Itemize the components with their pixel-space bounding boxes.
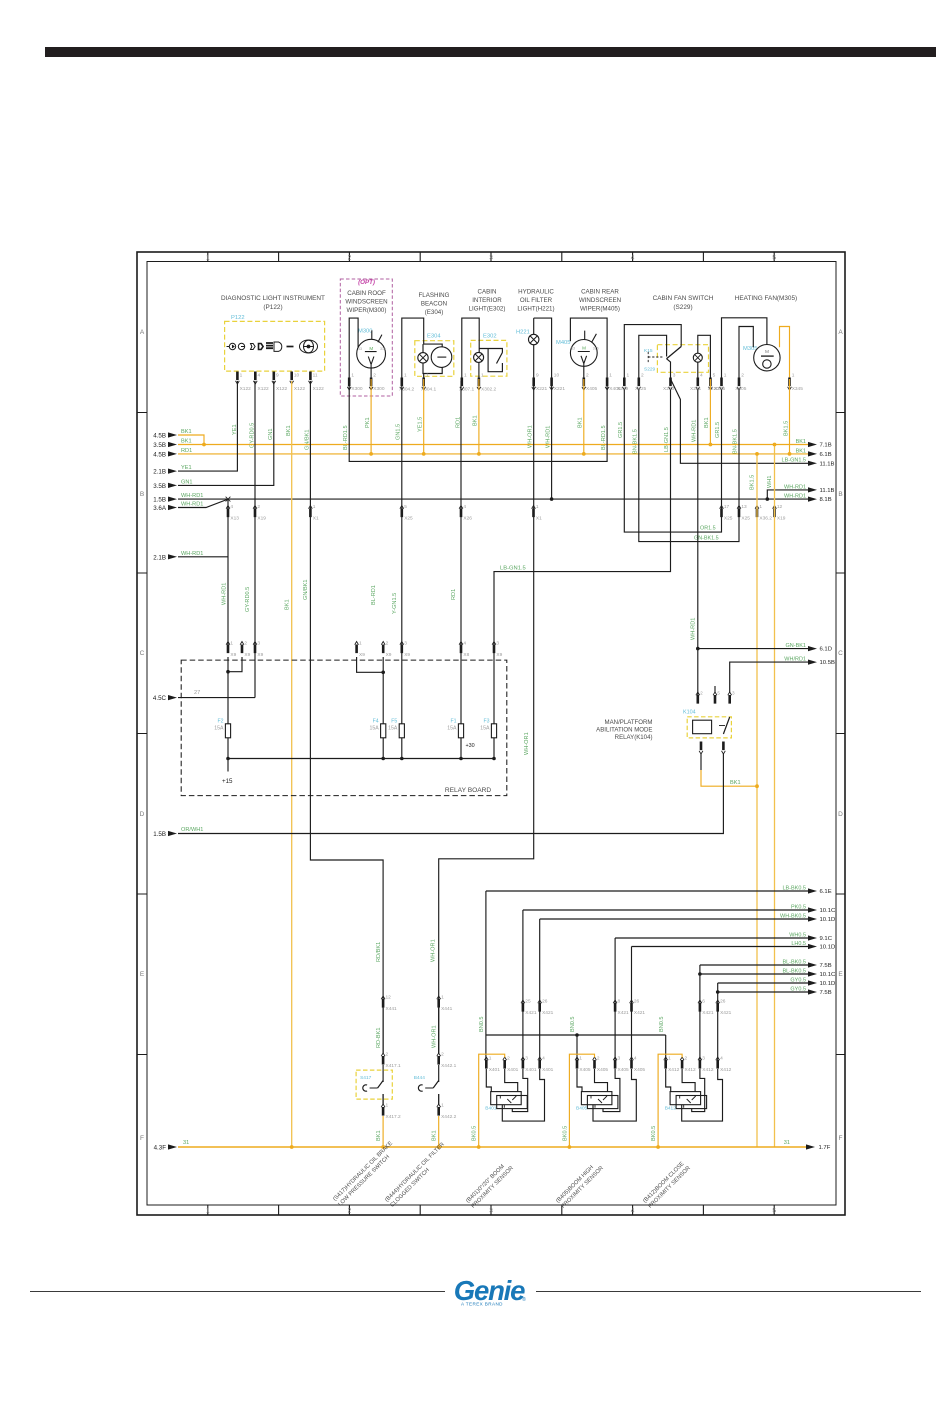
exit wire 7.5B GY0.5	[808, 989, 817, 994]
svg-text:3: 3	[702, 1056, 705, 1062]
svg-text:Y-GN1.5: Y-GN1.5	[392, 593, 398, 614]
svg-text:4: 4	[258, 373, 261, 379]
B405 orange feed	[569, 1054, 594, 1147]
B401 pin3 wire	[512, 1069, 527, 1112]
svg-text:BK1: BK1	[432, 1130, 438, 1141]
svg-text:X405: X405	[586, 386, 598, 392]
svg-text:1: 1	[627, 373, 630, 379]
svg-text:BK0.5: BK0.5	[472, 1126, 478, 1141]
svg-text:BK1: BK1	[730, 780, 741, 786]
svg-text:3: 3	[496, 641, 499, 647]
wire E304 pin X304.1 stub	[423, 374, 425, 380]
svg-text:GR1.5: GR1.5	[715, 422, 721, 438]
svg-text:B444: B444	[414, 1075, 426, 1081]
wire H221 lamp to pin	[533, 345, 535, 379]
svg-text:1: 1	[426, 373, 429, 379]
svg-text:+15: +15	[222, 778, 233, 785]
wire M300 pin1 to M405 pin1 BL-RD1.5	[349, 379, 607, 461]
svg-text:E: E	[838, 971, 843, 978]
svg-text:7.5B: 7.5B	[820, 963, 832, 969]
svg-text:X1: X1	[313, 516, 319, 522]
B405 body inner	[587, 1096, 618, 1109]
H221 connector pins X221	[532, 387, 554, 390]
svg-text:C: C	[838, 650, 843, 657]
X421 pins group3	[698, 1000, 720, 1003]
fuse F1 15A	[460, 649, 462, 724]
svg-text:4: 4	[634, 1056, 637, 1062]
svg-text:P122: P122	[231, 315, 245, 321]
B405 pin4 wire	[593, 1069, 636, 1121]
svg-text:15A: 15A	[447, 726, 457, 732]
svg-text:WH-RD1: WH-RD1	[691, 618, 697, 640]
svg-text:31b: 31b	[380, 347, 386, 351]
svg-text:BN0.5: BN0.5	[570, 1016, 576, 1032]
svg-text:3: 3	[525, 1056, 528, 1062]
svg-text:26: 26	[542, 999, 548, 1005]
svg-text:F: F	[140, 1135, 144, 1142]
svg-text:3: 3	[618, 1056, 621, 1062]
svg-text:2: 2	[441, 1052, 444, 1058]
svg-text:4: 4	[542, 1056, 545, 1062]
svg-text:4: 4	[631, 255, 635, 262]
svg-text:BK1: BK1	[181, 439, 192, 445]
wiper motor M405 symbol	[570, 340, 597, 367]
svg-text:LH0.5: LH0.5	[791, 941, 806, 947]
svg-text:F2: F2	[217, 719, 223, 725]
svg-text:1: 1	[441, 995, 444, 1001]
X421 pins group1	[521, 1000, 542, 1003]
svg-text:1.5B: 1.5B	[153, 831, 166, 838]
B401 pin4 wire	[502, 1069, 544, 1121]
B412 pin3 wire	[692, 1069, 705, 1112]
wire GY-RD0.5 P122 pin4 through X19 to relay	[254, 381, 256, 698]
svg-text:X9: X9	[257, 652, 263, 658]
exit wire 10.1D LH0.5	[632, 946, 809, 948]
B405 body outer	[581, 1092, 612, 1105]
svg-text:2: 2	[685, 1056, 688, 1062]
P122 connector pins X122	[236, 381, 313, 384]
svg-text:LB-GN1.5: LB-GN1.5	[782, 458, 806, 464]
junction	[369, 452, 373, 456]
svg-text:7.5B: 7.5B	[820, 990, 832, 996]
wire E304 lamp bottom link	[423, 363, 442, 374]
svg-text:LB-BK0.5: LB-BK0.5	[782, 885, 806, 891]
svg-text:53: 53	[358, 347, 362, 351]
wire 10.1D vertical to B442 pin4	[717, 983, 719, 1067]
svg-text:CABIN REAR: CABIN REAR	[581, 289, 619, 296]
svg-text:INTERIOR: INTERIOR	[472, 297, 502, 304]
svg-text:BN-BK1.5: BN-BK1.5	[633, 429, 639, 454]
svg-text:7.1B: 7.1B	[820, 443, 832, 449]
wire M305 X345 orange drop	[789, 379, 791, 454]
svg-text:4: 4	[720, 1056, 723, 1062]
svg-text:X25: X25	[724, 516, 733, 522]
svg-text:X122: X122	[258, 386, 270, 392]
svg-text:1: 1	[313, 504, 316, 510]
wire E302 pin X302.2 orange drop	[478, 379, 480, 454]
fan feed loop right orange	[780, 327, 790, 378]
svg-text:BK1: BK1	[704, 417, 710, 428]
svg-text:D: D	[140, 811, 145, 818]
wire B441 pin1 drop	[576, 1035, 578, 1067]
svg-text:WH-RD1: WH-RD1	[181, 551, 203, 557]
wire 6.1E vertical to sensor common	[485, 891, 487, 1067]
svg-text:LB-GN1.5: LB-GN1.5	[500, 565, 526, 571]
wire E304 pin X304.1 orange drop	[423, 379, 425, 454]
B412 pin4 wire	[682, 1069, 723, 1121]
svg-text:53: 53	[571, 347, 575, 351]
svg-text:1: 1	[759, 504, 762, 510]
B401 orange feed	[479, 1054, 505, 1147]
svg-text:X421: X421	[720, 1010, 732, 1016]
svg-text:BK0.5: BK0.5	[651, 1126, 657, 1141]
exit wire 10.1D WH-BK0.5	[540, 918, 808, 920]
E302 door switch	[479, 349, 502, 353]
svg-text:2: 2	[348, 1208, 352, 1215]
beacon lamp symbol	[418, 353, 428, 363]
svg-text:1: 1	[206, 1208, 210, 1215]
relay K104 dashed box	[687, 717, 731, 738]
svg-text:B: B	[140, 491, 144, 498]
relay board +15 stub	[227, 759, 229, 772]
svg-text:2: 2	[586, 373, 589, 379]
svg-text:15A: 15A	[214, 726, 224, 732]
svg-text:BEACON: BEACON	[421, 301, 447, 308]
junction	[550, 497, 554, 501]
svg-text:1: 1	[536, 504, 539, 510]
svg-text:2: 2	[741, 373, 744, 379]
svg-text:2: 2	[507, 1056, 510, 1062]
svg-text:X9: X9	[230, 652, 236, 658]
svg-text:BK1: BK1	[181, 429, 192, 435]
wire WH-RD1 branch to 11.1B	[767, 490, 808, 499]
fuse F3 15A	[493, 649, 495, 724]
svg-text:YE1: YE1	[181, 465, 192, 471]
svg-text:2: 2	[257, 504, 260, 510]
svg-text:E: E	[140, 971, 145, 978]
svg-text:WH-OR1: WH-OR1	[431, 939, 437, 962]
svg-text:RELAY BOARD: RELAY BOARD	[445, 787, 492, 794]
svg-text:BK0.5: BK0.5	[562, 1126, 568, 1141]
svg-text:B405: B405	[576, 1105, 588, 1111]
K104 coil	[693, 720, 712, 734]
heating fan M305 symbol	[754, 345, 780, 371]
svg-text:CABIN FAN SWITCH: CABIN FAN SWITCH	[653, 295, 714, 302]
fuse F5 15A	[401, 649, 403, 724]
B412 body inner	[676, 1096, 707, 1109]
B412 orange feed	[658, 1054, 682, 1147]
fuse F4 15A	[382, 657, 384, 724]
svg-text:(E304): (E304)	[425, 309, 444, 316]
exit wire 9.1C WH0.5	[615, 937, 808, 939]
M300 connector pins X300	[347, 387, 373, 390]
svg-text:6.1B: 6.1B	[820, 452, 832, 458]
wire S229 X229 loop via X25.17	[624, 390, 721, 532]
svg-text:11.1B: 11.1B	[820, 488, 835, 494]
svg-text:X412: X412	[668, 1067, 680, 1073]
svg-text:DIAGNOSTIC LIGHT INSTRUMENT: DIAGNOSTIC LIGHT INSTRUMENT	[221, 295, 325, 302]
svg-text:4.5B: 4.5B	[153, 451, 166, 458]
svg-text:X19: X19	[257, 516, 266, 522]
svg-text:2: 2	[641, 373, 644, 379]
wire LB-GN1.5 X223 to relay board	[494, 390, 671, 649]
svg-text:X9: X9	[496, 652, 502, 658]
svg-text:OIL FILTER: OIL FILTER	[520, 297, 553, 304]
header black bar	[45, 47, 936, 57]
P122 indicator icons	[227, 340, 318, 353]
svg-text:X19: X19	[777, 516, 786, 522]
svg-text:A: A	[140, 329, 145, 336]
wire M300 pin2 orange drop	[370, 379, 372, 454]
svg-text:RD/BK1: RD/BK1	[376, 942, 382, 962]
K104 bottom pins	[699, 751, 725, 754]
svg-text:X221: X221	[536, 386, 548, 392]
fuse F2 15A	[227, 657, 229, 724]
svg-text:GY-RD0.5: GY-RD0.5	[245, 587, 251, 612]
svg-text:3: 3	[404, 641, 407, 647]
junction	[575, 1033, 579, 1037]
svg-text:X412: X412	[702, 1067, 714, 1073]
orange pins	[755, 506, 776, 509]
svg-text:31: 31	[784, 1140, 790, 1146]
svg-text:F: F	[839, 1135, 843, 1142]
svg-text:A: A	[838, 329, 843, 336]
M405 connector pins X405	[582, 387, 609, 390]
exit arrow 11.1B	[808, 487, 817, 492]
svg-text:PK0.5: PK0.5	[791, 904, 806, 910]
svg-text:X9: X9	[244, 652, 250, 658]
footer rule right	[536, 1291, 921, 1293]
svg-text:X221: X221	[690, 386, 702, 392]
svg-text:10.1D: 10.1D	[820, 917, 836, 923]
svg-text:CABIN ROOF: CABIN ROOF	[347, 290, 386, 297]
svg-text:X401: X401	[525, 1067, 537, 1073]
interior light E302 dashed box	[471, 340, 507, 376]
junction	[766, 497, 770, 501]
svg-text:31b: 31b	[593, 347, 599, 351]
svg-text:1: 1	[441, 1103, 444, 1109]
svg-text:BL-RD1: BL-RD1	[371, 585, 377, 605]
junction	[226, 670, 230, 674]
B412 pins X412	[664, 1057, 720, 1060]
svg-text:X9: X9	[359, 652, 365, 658]
wire S229 X220 orange drop	[709, 379, 711, 445]
X421 pins group2	[613, 1000, 633, 1003]
junction	[696, 647, 700, 651]
svg-text:F3: F3	[483, 719, 489, 725]
wire GY0.5 split to 7.5B	[718, 991, 808, 993]
svg-text:9: 9	[536, 373, 539, 379]
svg-text:RD1: RD1	[181, 448, 192, 454]
svg-text:B: B	[838, 491, 842, 498]
svg-text:WH0.5: WH0.5	[789, 932, 806, 938]
svg-text:MAN/PLATFORM: MAN/PLATFORM	[605, 719, 653, 726]
svg-text:WH1: WH1	[767, 476, 773, 488]
svg-text:8: 8	[618, 999, 621, 1005]
B401 pin1 wire	[486, 1069, 491, 1092]
svg-text:25: 25	[525, 999, 531, 1005]
svg-text:RELAY(K104): RELAY(K104)	[615, 734, 653, 741]
svg-text:X9: X9	[404, 652, 410, 658]
svg-text:1: 1	[240, 373, 243, 379]
svg-text:CABIN: CABIN	[478, 289, 497, 296]
junction	[788, 452, 792, 456]
svg-text:X412: X412	[720, 1067, 732, 1073]
svg-text:X401: X401	[489, 1067, 501, 1073]
svg-text:X441: X441	[441, 1006, 453, 1012]
svg-text:26: 26	[720, 999, 726, 1005]
fan switch S229 dashed box	[657, 345, 708, 373]
svg-text:X417.1: X417.1	[386, 1063, 402, 1069]
svg-text:BK1: BK1	[796, 439, 806, 445]
svg-text:BN0.5: BN0.5	[659, 1016, 665, 1032]
wire E304 lamp top stub	[422, 344, 424, 353]
exit wire 10.1D GY0.5	[718, 982, 808, 984]
svg-text:BL-RD1.5: BL-RD1.5	[601, 425, 607, 450]
svg-text:E304: E304	[427, 334, 441, 340]
footer rule left	[30, 1291, 445, 1293]
svg-text:BK1: BK1	[578, 417, 584, 428]
wiper M300 magenta dashed option box	[340, 279, 392, 396]
svg-text:X225: X225	[635, 386, 647, 392]
svg-text:X421: X421	[634, 1010, 646, 1016]
svg-text:1: 1	[489, 1056, 492, 1062]
junction	[755, 452, 759, 456]
svg-text:X122: X122	[276, 386, 288, 392]
instrument P122 dashed box	[225, 321, 325, 371]
exit arrow 7.1B	[808, 442, 817, 447]
svg-text:12: 12	[386, 995, 392, 1001]
svg-text:X442.2: X442.2	[441, 1114, 457, 1120]
svg-text:X223: X223	[663, 386, 675, 392]
B412 pin1 wire	[666, 1069, 671, 1092]
S417 lower pin	[381, 1104, 385, 1107]
svg-text:M405: M405	[556, 340, 571, 346]
svg-text:BL-BK0.5: BL-BK0.5	[782, 959, 806, 965]
svg-text:1: 1	[464, 373, 467, 379]
junction	[477, 452, 481, 456]
svg-text:OR/WH1: OR/WH1	[181, 827, 203, 833]
svg-text:15A: 15A	[480, 726, 490, 732]
outer border frame	[137, 252, 845, 1215]
svg-text:1: 1	[724, 373, 727, 379]
svg-text:X229: X229	[617, 386, 629, 392]
relay board link pin X9-1 to F4 line	[357, 657, 384, 672]
wire M300 pin1 loop	[349, 318, 358, 379]
svg-text:3.5B: 3.5B	[153, 442, 166, 449]
wire WH1 orange vertical	[774, 445, 776, 1148]
svg-text:27: 27	[194, 690, 200, 696]
svg-text:5: 5	[772, 255, 776, 262]
svg-text:X412: X412	[685, 1067, 697, 1073]
svg-text:M300: M300	[358, 329, 373, 335]
svg-text:12: 12	[777, 504, 783, 510]
beacon motor symbol	[431, 347, 452, 368]
svg-text:4.5B: 4.5B	[153, 433, 166, 440]
svg-text:GY0.5: GY0.5	[790, 977, 806, 983]
B444 pin X441	[437, 996, 441, 999]
svg-text:BK1: BK1	[376, 1130, 382, 1141]
wire P122 pin10 orange long vertical BK to ground bus	[291, 381, 293, 1147]
svg-text:BK1.5: BK1.5	[784, 421, 790, 436]
svg-text:X401: X401	[542, 1067, 554, 1073]
svg-text:D: D	[838, 811, 843, 818]
svg-text:GR1.5: GR1.5	[618, 422, 624, 438]
svg-text:X36.2: X36.2	[759, 516, 772, 522]
svg-text:1: 1	[668, 1056, 671, 1062]
wire E302 RD1 X26 vertical to relay X8	[460, 381, 462, 649]
svg-text:HYDRAULIC: HYDRAULIC	[518, 289, 554, 296]
svg-text:WH-RD1: WH-RD1	[784, 484, 806, 490]
svg-text:X305: X305	[714, 386, 726, 392]
B401 body outer	[491, 1092, 522, 1105]
E302 connector pins	[460, 387, 481, 390]
svg-text:BK1.5: BK1.5	[750, 475, 756, 490]
svg-text:11: 11	[313, 373, 318, 379]
junction	[381, 671, 385, 675]
svg-text:WH-RD1: WH-RD1	[692, 420, 698, 442]
B401 pins X401	[484, 1057, 541, 1060]
exit arrow 6.1B	[808, 451, 817, 456]
svg-text:2: 2	[348, 255, 352, 262]
svg-text:1: 1	[481, 373, 484, 379]
svg-text:X405: X405	[579, 1067, 591, 1073]
svg-text:9.1C: 9.1C	[820, 936, 833, 942]
S229 feed loop inner	[639, 335, 667, 377]
svg-text:A TEREX BRAND: A TEREX BRAND	[461, 1302, 503, 1307]
K104 switch	[723, 717, 729, 734]
svg-text:BN0.5: BN0.5	[479, 1016, 485, 1032]
svg-text:6: 6	[702, 999, 705, 1005]
svg-text:1.5B: 1.5B	[153, 497, 166, 504]
B412 pin2 wire	[682, 1069, 695, 1092]
svg-text:F1: F1	[450, 719, 456, 725]
svg-text:10: 10	[294, 373, 300, 379]
svg-text:X421: X421	[542, 1010, 554, 1016]
svg-text:1: 1	[230, 641, 233, 647]
svg-text:M: M	[369, 346, 373, 351]
svg-text:(P122): (P122)	[263, 304, 282, 311]
wire 10.1D vertical to B440 pin4	[539, 919, 541, 1067]
relay board pins X9/X8	[226, 642, 496, 645]
S229 switch arm	[667, 347, 682, 359]
exit wire 6.1E LB-BK0.5	[486, 890, 808, 892]
svg-text:4.5C: 4.5C	[153, 695, 167, 702]
E304 connector pins	[400, 387, 426, 390]
svg-text:(S229): (S229)	[673, 304, 692, 311]
svg-text:F5: F5	[391, 719, 397, 725]
svg-text:X421: X421	[618, 1010, 630, 1016]
S417 pin X441	[381, 996, 385, 999]
wire M405 pin2 orange drop	[583, 379, 585, 454]
wire 9.1C vertical to B441 pin3	[614, 938, 616, 1067]
svg-text:F4: F4	[373, 719, 379, 725]
svg-text:6.1E: 6.1E	[820, 889, 832, 895]
svg-text:1: 1	[404, 373, 407, 379]
svg-text:15A: 15A	[388, 726, 398, 732]
wire H221 WH-OR1 X1 vertical down	[439, 379, 534, 1053]
svg-text:1: 1	[609, 373, 612, 379]
wire WH-RD1 X13 vertical to relay F2	[227, 499, 229, 649]
wire K104 to 10.5B exit WH/RD1	[730, 662, 808, 692]
svg-text:BL-RD1.5: BL-RD1.5	[343, 425, 349, 450]
svg-text:(OPT): (OPT)	[358, 279, 375, 286]
wire H221 pin10 WH-RD1 drop	[551, 379, 553, 499]
wire E304 pin X304.2 loop	[402, 318, 442, 379]
svg-text:X305: X305	[735, 386, 747, 392]
svg-text:+30: +30	[466, 743, 475, 749]
svg-text:X302.2: X302.2	[481, 387, 497, 393]
